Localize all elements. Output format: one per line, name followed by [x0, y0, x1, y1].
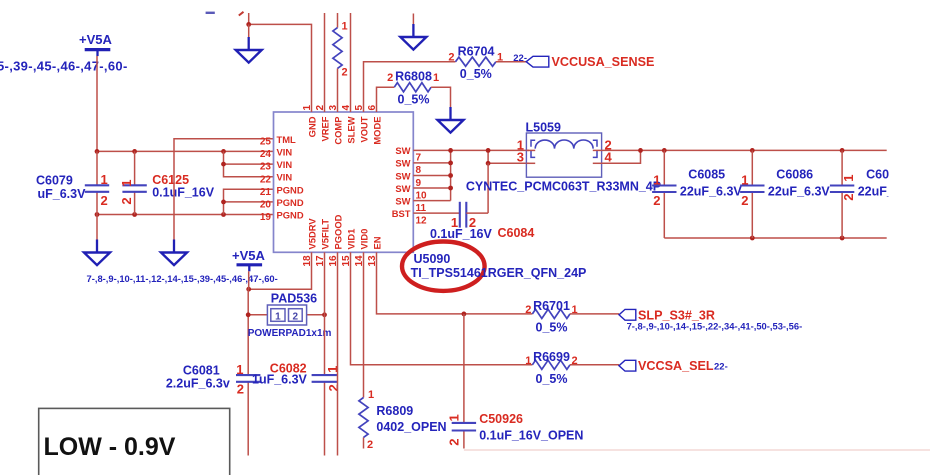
svg-text:R6701: R6701	[533, 299, 570, 313]
wire VID0 to R6809	[363, 252, 365, 448]
op IC U5090 body	[274, 112, 414, 252]
svg-text:2.2uF_6.3v: 2.2uF_6.3v	[166, 377, 230, 391]
wire VIN top rail	[95, 149, 274, 154]
svg-text:R6699: R6699	[533, 350, 570, 364]
svg-text:0.1uF_16V: 0.1uF_16V	[430, 227, 493, 241]
svg-text:7-,8-,9-,10-,14-,15-,22-,34-,4: 7-,8-,9-,10-,14-,15-,22-,34-,41-,50-,53-…	[627, 320, 803, 331]
svg-text:2: 2	[446, 439, 461, 446]
svg-text:1: 1	[741, 172, 748, 187]
wire GND pin1 to ground junction	[246, 13, 311, 112]
svg-text:2: 2	[237, 382, 244, 397]
svg-text:C6084: C6084	[498, 226, 535, 240]
capacitor C6079	[36, 151, 109, 214]
svg-text:21: 21	[260, 187, 272, 198]
svg-text:12: 12	[416, 215, 428, 226]
svg-text:VCCSA_SEL: VCCSA_SEL	[638, 359, 714, 373]
svg-text:1: 1	[653, 172, 660, 187]
ground (GND pin net)	[236, 24, 262, 62]
svg-text:22-: 22-	[513, 53, 527, 64]
svg-text:22uF_6.3V: 22uF_6.3V	[680, 184, 743, 198]
wire BST to C6084	[413, 212, 460, 214]
svg-text:0.1uF_16V: 0.1uF_16V	[152, 186, 215, 200]
svg-text:1: 1	[236, 362, 243, 377]
svg-text:2: 2	[525, 304, 531, 316]
svg-text:PGND: PGND	[277, 210, 304, 221]
svg-text:C6085: C6085	[688, 168, 725, 182]
wire TML to ground	[174, 139, 274, 240]
svg-text:1uF_6.3V: 1uF_6.3V	[252, 372, 308, 386]
resistor (COMP, unnamed)	[333, 13, 348, 112]
svg-text:VIN: VIN	[277, 146, 293, 157]
power symbol +V5A (top left)	[79, 32, 112, 56]
svg-text:1: 1	[525, 355, 531, 367]
svg-text:0.1uF_16V_OPEN: 0.1uF_16V_OPEN	[479, 428, 583, 442]
net name list (bottom left grounds)	[87, 273, 278, 284]
svg-text:SW: SW	[395, 195, 410, 206]
svg-text:R6808: R6808	[395, 70, 432, 84]
svg-text:VREF: VREF	[320, 116, 331, 141]
svg-text:2: 2	[101, 193, 108, 208]
svg-text:22-: 22-	[714, 362, 728, 373]
svg-text:C6079: C6079	[36, 174, 73, 188]
svg-text:VIN: VIN	[277, 159, 293, 170]
port VCCUSA_SENSE	[513, 53, 654, 69]
svg-text:R6704: R6704	[458, 44, 495, 58]
off-page tick mark	[239, 12, 244, 16]
svg-text:24: 24	[260, 149, 272, 160]
wire VOUT to R6704	[364, 62, 456, 112]
net name list (left edge, +V5A pages)	[0, 59, 128, 74]
svg-text:22uF_6.3V: 22uF_6.3V	[768, 184, 831, 198]
svg-text:V5DRV: V5DRV	[307, 218, 318, 250]
label U5090 TI_TPS51461RGER_QFN_24P	[411, 252, 587, 280]
svg-text:11: 11	[416, 203, 427, 214]
svg-text:SW: SW	[395, 145, 410, 156]
svg-text:0402_OPEN: 0402_OPEN	[376, 420, 446, 434]
wire PGND bottom rail	[95, 212, 274, 217]
svg-text:GND: GND	[307, 116, 318, 137]
svg-text:SW: SW	[395, 183, 410, 194]
capacitor C6125	[119, 151, 215, 214]
label CYNTEC_PCMC063T_R33MN_4P	[466, 180, 661, 194]
svg-text:1: 1	[433, 72, 439, 84]
svg-text:2: 2	[326, 384, 341, 391]
svg-text:PGND: PGND	[277, 197, 304, 208]
svg-text:25: 25	[260, 136, 272, 147]
wire SLEW stub	[350, 13, 352, 112]
resistor R6701	[525, 299, 577, 334]
svg-text:VID1: VID1	[346, 229, 357, 250]
U5090 top pins 1-6 GND/VREF/COMP/SLEW/VOUT/MODE	[302, 105, 383, 145]
wire VREF stub	[324, 13, 326, 112]
ground (TML net)	[161, 240, 187, 266]
wire EN to R6701	[377, 252, 533, 316]
svg-text:0_5%: 0_5%	[536, 372, 568, 386]
svg-text:SW: SW	[395, 170, 410, 181]
svg-text:U5090: U5090	[414, 252, 451, 266]
wire SW node to L5059 pin3	[486, 148, 529, 166]
resistor R6809 (0402_OPEN)	[359, 389, 447, 451]
svg-text:19: 19	[260, 212, 272, 223]
svg-text:VCCUSA_SENSE: VCCUSA_SENSE	[552, 55, 655, 69]
svg-text:EN: EN	[372, 236, 383, 249]
svg-text:BST: BST	[392, 208, 411, 219]
wire MODE to R6808	[377, 87, 395, 112]
wire R6701 to port	[570, 313, 619, 315]
svg-text:MODE: MODE	[372, 117, 383, 145]
resistor R6808	[387, 70, 439, 107]
blue dash mark (top edge)	[206, 12, 215, 14]
svg-text:2: 2	[387, 72, 393, 84]
svg-text:COMP: COMP	[333, 117, 344, 145]
svg-text:22: 22	[260, 174, 272, 185]
wire C6084 to SW node	[466, 163, 488, 213]
svg-text:1: 1	[368, 389, 374, 401]
svg-text:SW: SW	[395, 158, 410, 169]
ground (R6808 net)	[438, 107, 464, 133]
svg-text:VOUT: VOUT	[359, 116, 370, 142]
svg-text:TML: TML	[277, 134, 297, 145]
svg-text:CYNTEC_PCMC063T_R33MN_4P: CYNTEC_PCMC063T_R33MN_4P	[466, 180, 661, 194]
svg-text:2: 2	[653, 193, 660, 208]
svg-text:2: 2	[293, 311, 299, 322]
svg-text:20: 20	[260, 200, 272, 211]
wire R6699 to port	[570, 364, 619, 366]
wire L5059 output rail	[602, 148, 887, 163]
svg-text:5-,39-,45-,46-,47-,60-: 5-,39-,45-,46-,47-,60-	[0, 59, 128, 74]
wire stub (mid ground)	[412, 14, 414, 25]
svg-text:LOW - 0.9V: LOW - 0.9V	[44, 433, 176, 461]
svg-text:1: 1	[342, 21, 348, 33]
svg-text:PGND: PGND	[277, 184, 304, 195]
capacitor C6082	[252, 362, 341, 392]
net name list (SLP_S3#_3R pages)	[627, 320, 803, 331]
svg-text:C6081: C6081	[183, 363, 220, 377]
svg-text:POWERPAD1x1m: POWERPAD1x1m	[248, 328, 332, 339]
svg-text:R6809: R6809	[376, 404, 413, 418]
svg-text:PGOOD: PGOOD	[333, 214, 344, 249]
ground (left caps net)	[84, 215, 110, 266]
capacitor C6085	[652, 150, 742, 238]
wire SW pins to bus	[413, 148, 529, 201]
wire VID1 to R6699	[351, 252, 533, 364]
port SLP_S3#_3R	[619, 309, 715, 323]
capacitor C6084	[430, 202, 534, 241]
svg-text:+V5A: +V5A	[232, 248, 265, 263]
wire PGND bus to pins 21,20	[221, 189, 273, 214]
svg-text:1: 1	[101, 172, 108, 187]
highlight ellipse around U5090	[402, 242, 485, 291]
U5090 right pins 7-12 SW/BST	[392, 145, 427, 226]
svg-text:9: 9	[416, 178, 422, 189]
wire output ground rail	[664, 236, 886, 241]
svg-text:1: 1	[275, 311, 281, 322]
svg-text:V5FILT: V5FILT	[320, 219, 331, 250]
wire +V5A down to VIN rail	[96, 56, 98, 151]
ground (VOUT divider net)	[400, 24, 426, 50]
wire VIN bus to pins 23,22	[221, 151, 273, 176]
faint bottom wire remnant	[464, 449, 930, 451]
power symbol +V5A (PAD area)	[232, 248, 265, 272]
svg-text:3: 3	[517, 150, 524, 165]
svg-text:0_5%: 0_5%	[536, 320, 568, 334]
wire R6704 to port	[496, 61, 526, 63]
svg-text:0_5%: 0_5%	[460, 67, 492, 81]
svg-text:VID0: VID0	[359, 229, 370, 250]
resistor R6704	[448, 44, 503, 81]
capacitor C6086	[740, 150, 830, 238]
wire PGOOD down	[337, 252, 339, 455]
wire V5FILT down	[324, 252, 326, 455]
capacitor C50926 (0.1uF_16V_OPEN)	[446, 412, 583, 446]
svg-text:C6086: C6086	[776, 168, 813, 182]
svg-text:23: 23	[260, 162, 272, 173]
U5090 bottom pins 18-13 V5DRV/V5FILT/PGOOD/VID1/VID0/EN	[302, 214, 383, 266]
svg-text:+V5A: +V5A	[79, 32, 112, 47]
wire R6808 to ground	[431, 87, 450, 107]
annotation box LOW - 0.9V	[39, 408, 230, 475]
svg-text:VIN: VIN	[277, 172, 293, 183]
svg-text:1: 1	[446, 414, 461, 421]
wire +V5A down through PAD/C6081	[247, 271, 250, 455]
svg-text:TI_TPS51461RGER_QFN_24P: TI_TPS51461RGER_QFN_24P	[411, 266, 587, 280]
wire EN node to C50926	[463, 314, 465, 449]
svg-text:4: 4	[605, 150, 613, 165]
svg-text:2: 2	[448, 52, 454, 64]
wire V5DRV to +V5A	[246, 252, 311, 291]
inductor L5059	[517, 121, 613, 178]
svg-text:L5059: L5059	[526, 121, 561, 135]
svg-text:8: 8	[416, 165, 422, 176]
svg-text:2: 2	[119, 197, 134, 204]
svg-text:2: 2	[841, 193, 856, 200]
svg-text:0_5%: 0_5%	[398, 93, 430, 107]
capacitor C6087 (clipped at edge)	[830, 150, 930, 238]
svg-text:SLEW: SLEW	[346, 116, 357, 143]
svg-text:10: 10	[416, 190, 428, 201]
U5090 left pins 25-19 TML/VIN/PGND	[260, 134, 304, 223]
svg-text:1: 1	[841, 174, 856, 181]
resistor R6699	[525, 350, 577, 386]
svg-text:7: 7	[416, 153, 422, 164]
svg-text:uF_6.3V: uF_6.3V	[38, 187, 87, 201]
capacitor C6081	[166, 362, 261, 397]
svg-text:2: 2	[342, 67, 348, 79]
svg-text:2: 2	[367, 439, 373, 451]
port VCCSA_SEL	[619, 359, 728, 373]
svg-text:2: 2	[741, 193, 748, 208]
svg-text:1: 1	[119, 180, 134, 187]
svg-text:C50926: C50926	[479, 412, 523, 426]
svg-text:PAD536: PAD536	[271, 292, 317, 306]
pad PAD536 POWERPAD1x1m	[246, 292, 332, 339]
